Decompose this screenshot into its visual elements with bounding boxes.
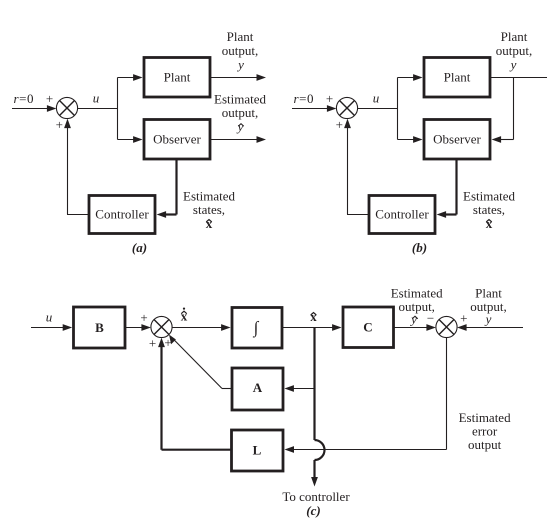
- svg-text:states,: states,: [193, 202, 225, 217]
- svg-text:y: y: [509, 57, 517, 72]
- svg-text:output,: output,: [222, 105, 258, 120]
- svg-text:+: +: [46, 91, 53, 106]
- svg-text:+: +: [56, 117, 63, 132]
- svg-text:−: −: [427, 311, 434, 326]
- svg-text:output,: output,: [496, 43, 532, 58]
- block Controller (a): [89, 196, 155, 234]
- wire: plant output to edge (b): [490, 77, 547, 79]
- svg-text:output: output: [468, 437, 502, 452]
- label Estimated output, y-hat minus (c): [391, 286, 443, 327]
- block B (c): [74, 307, 126, 348]
- wire: input r=0 into summer (a): [12, 105, 56, 112]
- svg-text:r=0: r=0: [293, 91, 313, 106]
- svg-text:u: u: [93, 91, 100, 106]
- svg-text:+: +: [140, 310, 147, 325]
- svg-text:(b): (b): [412, 240, 427, 255]
- svg-text:Observer: Observer: [153, 132, 201, 147]
- block C (c): [343, 307, 394, 348]
- wire: branch vertical (b): [397, 78, 399, 140]
- summing junction S3 (c): [151, 316, 172, 337]
- wire: S3 to integrator (c): [172, 324, 231, 331]
- svg-text:(a): (a): [132, 240, 147, 255]
- svg-text:+: +: [336, 117, 343, 132]
- svg-text:Controller: Controller: [375, 207, 429, 222]
- wire: plant output y into S4 (c): [457, 324, 523, 331]
- svg-text:+: +: [460, 311, 467, 326]
- wire: plant input (a): [118, 74, 143, 81]
- wire: A to S3 diagonal (c): [169, 335, 232, 389]
- svg-text:To controller: To controller: [282, 489, 350, 504]
- svg-text:states,: states,: [473, 202, 505, 217]
- svg-text:Controller: Controller: [95, 207, 149, 222]
- wire: x-hat down to A and to controller with hop (c): [311, 328, 324, 487]
- svg-text:Observer: Observer: [433, 132, 481, 147]
- svg-text:L: L: [253, 443, 262, 458]
- svg-text:x: x: [310, 309, 317, 324]
- label Estimated error output (c): [459, 410, 511, 452]
- wire: observer input (b): [398, 136, 423, 143]
- label Estimated output, y-hat (a): [214, 91, 266, 134]
- svg-text:y: y: [236, 119, 244, 134]
- label Estimated states, x-hat (b): [463, 189, 515, 231]
- wire: L to S3 feedback (c): [158, 338, 231, 450]
- svg-text:output,: output,: [222, 43, 258, 58]
- svg-text:Estimated: Estimated: [214, 91, 266, 106]
- node label x-hat (c): [310, 309, 317, 324]
- svg-text:y: y: [484, 312, 492, 327]
- wire: plant output (a): [210, 74, 266, 81]
- wire: plant output down into observer (b): [492, 78, 514, 143]
- svg-text:B: B: [95, 320, 104, 335]
- label Plant output, y (c): [470, 286, 506, 327]
- wire: input r=0 into summer (b): [292, 105, 336, 112]
- summing junction S2 (b): [336, 97, 357, 118]
- wire: branch vertical (a): [117, 78, 119, 140]
- plus signs at S3 lower inputs (c): [149, 335, 172, 351]
- wire: summer to branch node (b): [358, 108, 398, 110]
- wire: observer to controller (b): [437, 159, 457, 218]
- wire: summer to branch node (a): [78, 108, 118, 110]
- svg-text:x: x: [486, 216, 493, 231]
- wire: integrator to C with x-hat branch (c): [282, 324, 342, 331]
- label Plant output, y (b): [496, 29, 532, 72]
- svg-text:Plant: Plant: [164, 70, 191, 85]
- wire: observer to controller (a): [157, 159, 177, 218]
- block Observer (b): [424, 120, 490, 160]
- block Observer (a): [144, 120, 210, 160]
- summing junction S4 (c): [436, 316, 457, 337]
- svg-text:A: A: [253, 380, 263, 395]
- label Plant output, y (a): [222, 29, 258, 72]
- svg-text:+: +: [149, 336, 156, 351]
- svg-text:Plant: Plant: [444, 70, 471, 85]
- summing junction S1 (a): [56, 97, 77, 118]
- label Estimated states, x-hat (a): [183, 189, 235, 231]
- svg-text:(c): (c): [306, 503, 320, 518]
- block Controller (b): [369, 196, 435, 234]
- block A (c): [232, 368, 283, 410]
- svg-text:+: +: [326, 91, 333, 106]
- svg-text:r=0: r=0: [13, 91, 33, 106]
- block Plant (a): [144, 58, 210, 98]
- svg-text:u: u: [46, 310, 53, 325]
- block Plant (b): [424, 58, 490, 98]
- wire: controller to summer feedback (a): [64, 119, 89, 215]
- node label x-hat-dot (c): [181, 308, 188, 324]
- block integrator (c): [232, 308, 282, 349]
- svg-text:x: x: [206, 216, 213, 231]
- wire: S4 down and left to L (c): [285, 338, 447, 453]
- svg-text:u: u: [373, 91, 380, 106]
- svg-text:y: y: [409, 312, 417, 327]
- svg-text:y: y: [236, 57, 244, 72]
- wire: x-hat into A (c): [284, 385, 314, 392]
- wire: C to summer S4 (c): [394, 324, 436, 331]
- wire: observer input (a): [118, 136, 143, 143]
- wire: input u into B (c): [31, 324, 72, 331]
- wire: plant input (b): [398, 74, 423, 81]
- wire: controller to summer feedback (b): [344, 119, 369, 215]
- block L (c): [232, 430, 284, 471]
- wire: observer output (a): [210, 136, 266, 143]
- wire: B to summer S3 (c): [125, 324, 151, 331]
- svg-text:C: C: [363, 320, 372, 335]
